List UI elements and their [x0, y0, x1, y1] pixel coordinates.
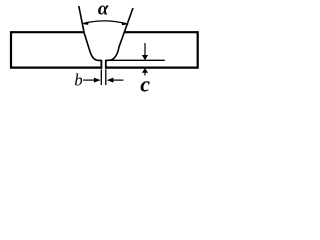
c dimension lower arrow shaft	[144, 73, 146, 76]
right root face	[105, 60, 107, 69]
right plate outline	[106, 32, 198, 67]
svg-text:c: c	[140, 72, 150, 97]
b dimension left shaft	[83, 79, 94, 81]
right groove bevel	[106, 8, 133, 60]
b dimension arrowhead pointing left	[107, 78, 114, 83]
extension line for c (root face level)	[106, 59, 165, 61]
arc arrowhead right	[121, 22, 129, 25]
c dimension lower arrow (up arrowhead)	[142, 68, 148, 73]
c dimension upper arrow shaft	[144, 43, 146, 55]
svg-text:α: α	[98, 0, 109, 20]
b extension line left	[100, 69, 102, 85]
svg-text:b: b	[74, 70, 82, 89]
left plate outline	[11, 32, 101, 67]
b dimension arrowhead pointing right	[94, 78, 101, 83]
left groove bevel	[79, 6, 102, 60]
angle dimension arc	[84, 21, 127, 24]
arc arrowhead left	[81, 22, 89, 25]
left root face	[100, 60, 102, 69]
b extension line right	[105, 69, 107, 85]
c dimension down arrowhead	[142, 55, 148, 60]
b dimension right shaft	[113, 79, 124, 81]
